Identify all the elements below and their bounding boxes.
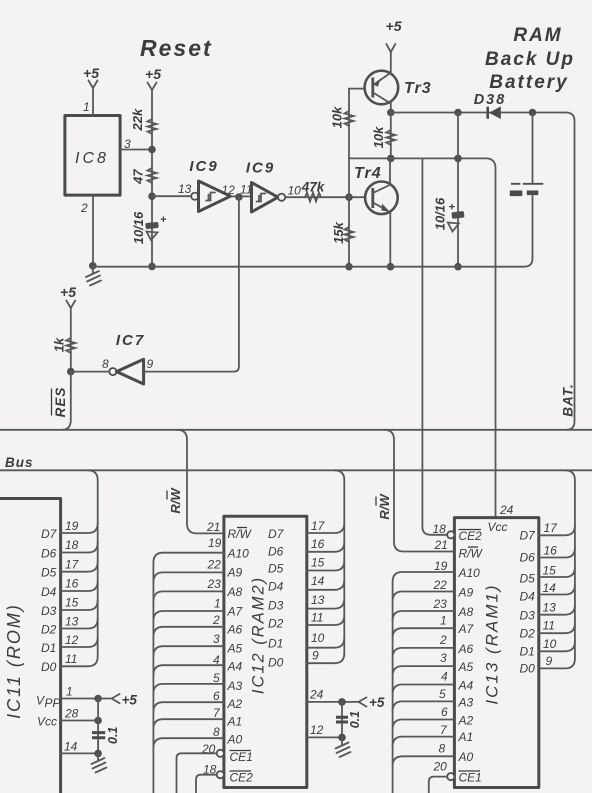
node pin3/22k junction: [148, 146, 156, 154]
wire IC12 pin19 A10: [153, 553, 224, 563]
svg-text:+5: +5: [369, 695, 385, 710]
inverter IC9b output bubble: [278, 194, 285, 201]
wire IC8 pin2 down to ground rail: [92, 195, 94, 266]
svg-text:12: 12: [65, 633, 79, 647]
svg-text:IC9: IC9: [189, 158, 218, 175]
svg-text:15: 15: [543, 564, 557, 578]
capacitor 10/16 (backup): [451, 211, 464, 219]
svg-text:28: 28: [64, 707, 79, 721]
node inverter input tap: [148, 192, 156, 200]
svg-text:IC8: IC8: [75, 150, 109, 167]
wire IC12 pin24: [307, 701, 359, 703]
wire IC11 pin12 D1: [61, 637, 98, 647]
svg-text:16: 16: [544, 544, 558, 558]
wire IC13 pin11 D2: [539, 623, 575, 633]
resistor 47k: [305, 193, 321, 202]
wire IC13 pin8 A0: [393, 756, 455, 766]
svg-text:CE2: CE2: [459, 529, 483, 543]
svg-text:47k: 47k: [301, 180, 326, 195]
wire IC12 pin7 A1: [153, 719, 224, 729]
svg-text:Tr4: Tr4: [354, 165, 382, 182]
svg-text:R/W: R/W: [459, 547, 484, 561]
svg-text:10: 10: [543, 637, 557, 651]
wire IC13 pin15 D5: [539, 567, 575, 577]
svg-text:IC7: IC7: [116, 332, 145, 349]
wire IC12 CE2: [196, 775, 217, 793]
capacitor 0.1 (IC12): [336, 717, 348, 722]
svg-text:17: 17: [65, 558, 80, 572]
wire node to IC7 output bubble: [71, 371, 110, 373]
capacitor 0.1 (IC11): [92, 733, 105, 738]
svg-text:R/W: R/W: [228, 527, 253, 541]
wire IC12 CE1: [177, 753, 217, 793]
svg-text:Bus: Bus: [5, 455, 34, 470]
svg-text:D4: D4: [268, 580, 284, 594]
svg-text:5: 5: [439, 687, 446, 701]
svg-text:13: 13: [178, 182, 192, 196]
svg-text:D38: D38: [474, 92, 507, 108]
svg-text:16: 16: [65, 577, 79, 591]
wire IC11 data bundle from bus: [88, 470, 98, 656]
svg-text:24: 24: [499, 503, 514, 517]
svg-text:18: 18: [433, 522, 447, 536]
svg-text:Battery: Battery: [489, 72, 568, 93]
svg-text:D0: D0: [41, 660, 57, 674]
svg-text:19: 19: [434, 559, 448, 573]
svg-text:6: 6: [441, 705, 448, 719]
wire IC13 pin9 D0: [539, 659, 575, 669]
svg-text:D0: D0: [520, 662, 536, 676]
wire IC11 pin11 D0: [61, 657, 98, 667]
svg-text:21: 21: [206, 520, 220, 534]
IC11 (ROM): [0, 499, 61, 793]
svg-text:0.1: 0.1: [106, 727, 120, 744]
wire RES down to bus: [62, 372, 71, 430]
node 47k/15k/Tr4 base junction: [345, 193, 353, 201]
inverter IC7 output bubble: [109, 368, 116, 375]
node rail/cap junction: [454, 155, 462, 163]
svg-text:1k: 1k: [52, 337, 67, 352]
svg-text:22k: 22k: [130, 108, 145, 131]
wire IC11 pin19 D7: [61, 523, 98, 533]
svg-text:+: +: [160, 214, 167, 226]
IC13 CE1 bubble: [447, 773, 454, 780]
resistor 15k: [345, 227, 354, 242]
op-amp triangle inverter IC9a: [199, 181, 231, 212]
wire IC12 address bundle vertical: [152, 563, 154, 793]
wire 10k collector link: [390, 113, 392, 159]
svg-text:1: 1: [214, 597, 221, 611]
svg-text:10/16: 10/16: [433, 197, 448, 230]
svg-text:14: 14: [64, 740, 78, 754]
svg-text:Vcc: Vcc: [37, 715, 57, 729]
wire 10/16 cap branch: [457, 113, 459, 267]
wire IC13 CE1: [429, 777, 447, 793]
wire bus line bottom: [0, 469, 592, 471]
wire IC12 pin12: [307, 736, 342, 738]
node Tr4 emitter/ground rail: [387, 263, 395, 271]
wire +5 to Tr3 emitter: [390, 52, 392, 72]
svg-text:+5: +5: [145, 66, 161, 82]
svg-text:BAT.: BAT.: [561, 383, 576, 417]
svg-text:D6: D6: [268, 545, 284, 559]
node D38/battery junction: [529, 109, 537, 117]
svg-text:3: 3: [213, 632, 220, 646]
node pin14/cap junction: [94, 750, 102, 758]
wire IC12 pin6 A2: [153, 702, 224, 712]
svg-text:A7: A7: [227, 605, 244, 619]
svg-text:R/W: R/W: [168, 487, 183, 514]
svg-text:15: 15: [311, 556, 325, 570]
wire IC13 pin4 A4: [393, 685, 455, 695]
wire IC8 pin1 to +5: [92, 88, 94, 116]
capacitor 10/16 (reset): [145, 222, 159, 229]
wire IC11 pin28 Vcc: [61, 720, 99, 722]
svg-text:4: 4: [441, 670, 448, 684]
wire IC13 pin1 A7: [393, 628, 455, 638]
wire R/W net to IC13 pin21: [384, 430, 454, 552]
wire IC11 pin18 D6: [61, 543, 98, 553]
svg-text:A10: A10: [458, 566, 481, 580]
ground (IC11): [97, 753, 99, 761]
svg-text:24: 24: [309, 688, 324, 702]
svg-text:D3: D3: [268, 599, 284, 613]
resistor 47: [148, 168, 157, 183]
svg-text:9: 9: [147, 357, 154, 371]
svg-text:13: 13: [543, 601, 557, 615]
wire inverter1 out to inverter2 in: [231, 195, 250, 197]
svg-text:+5: +5: [386, 18, 402, 34]
svg-text:+5: +5: [122, 693, 138, 708]
svg-text:A0: A0: [458, 750, 474, 764]
svg-text:IC13 (RAM1): IC13 (RAM1): [483, 583, 502, 704]
svg-text:PP: PP: [45, 696, 61, 710]
svg-text:+5: +5: [83, 65, 99, 81]
net label R/W (IC13): [376, 493, 392, 520]
svg-text:19: 19: [65, 519, 79, 533]
svg-text:22: 22: [433, 578, 448, 592]
wire IC12 pin9 D0: [307, 653, 345, 663]
wire IC13 pin23 A8: [393, 611, 455, 621]
resistor 1k: [66, 338, 75, 353]
svg-text:+: +: [449, 202, 456, 214]
svg-text:D2: D2: [520, 627, 536, 641]
svg-text:1: 1: [440, 614, 447, 628]
wire IC13 pin7 A1: [393, 737, 455, 747]
svg-text:8: 8: [439, 742, 446, 756]
svg-text:R/W: R/W: [377, 493, 392, 520]
svg-text:10k: 10k: [330, 106, 345, 128]
svg-text:16: 16: [311, 537, 325, 551]
wire Tr3 collector to rail: [390, 103, 392, 113]
svg-text:14: 14: [543, 581, 557, 595]
node Tr4 collector junction: [387, 155, 395, 163]
svg-text:D6: D6: [520, 551, 536, 565]
IC12 CE1 bubble: [217, 750, 224, 757]
wire IC12 cap vertical: [341, 702, 343, 738]
power +5 (IC12): [359, 697, 367, 706]
svg-text:D3: D3: [41, 604, 57, 618]
svg-text:A10: A10: [227, 547, 250, 561]
svg-text:22: 22: [207, 558, 222, 572]
IC12 CE2 bubble: [217, 771, 224, 778]
svg-text:10: 10: [311, 631, 325, 645]
ground (IC8 pin2): [89, 262, 97, 270]
svg-text:Back Up: Back Up: [485, 49, 575, 70]
node IC12 pin12/cap junction: [338, 734, 346, 742]
svg-text:15k: 15k: [331, 221, 346, 243]
svg-text:D1: D1: [41, 641, 56, 655]
node 15k bottom: [345, 263, 353, 271]
svg-text:A4: A4: [227, 660, 243, 674]
svg-text:D7: D7: [268, 527, 285, 541]
wire IC12 pin10 D1: [307, 638, 345, 648]
wire IC12 pin23 A8: [153, 591, 224, 601]
svg-text:RAM: RAM: [513, 25, 562, 46]
transistor Tr3: [365, 71, 399, 105]
wire IC13 pin6 A2: [393, 720, 455, 730]
node RES junction: [67, 368, 75, 376]
IC8: [65, 116, 120, 196]
wire tap to inverter1 input: [152, 195, 191, 197]
svg-text:D6: D6: [41, 547, 57, 561]
svg-text:1: 1: [66, 685, 73, 699]
svg-text:A5: A5: [227, 642, 243, 656]
node 10/16 cap top: [454, 109, 462, 117]
svg-text:10/16: 10/16: [131, 211, 146, 244]
resistor 22k: [148, 119, 157, 134]
wire reset RC vertical: [151, 90, 153, 266]
battery B1: [532, 113, 534, 184]
net label RES: [52, 387, 69, 418]
wire rail y112 (Tr3 collector to D38/battery): [391, 113, 575, 430]
resistor 10k (Tr3 base): [345, 111, 354, 126]
net label R/W (IC12): [167, 487, 183, 514]
wire IC11 pin1 Vpp: [61, 698, 99, 700]
svg-text:D5: D5: [520, 572, 536, 586]
svg-text:11: 11: [543, 619, 555, 633]
wire IC11 pin15 D3: [61, 600, 98, 610]
svg-text:D1: D1: [268, 637, 283, 651]
svg-text:13: 13: [65, 615, 79, 629]
wire Vpp-Vcc-cap vertical: [97, 699, 99, 754]
wire R/W net to IC12 pin21: [177, 430, 224, 534]
svg-text:A6: A6: [458, 642, 474, 656]
wire IC13 pin14 D4: [539, 585, 575, 595]
wire IC11 pin13 D2: [61, 619, 98, 629]
svg-text:+5: +5: [60, 284, 76, 300]
wire IC12 pin8 A0: [153, 738, 224, 748]
wire IC13 pin3 A5: [393, 666, 455, 676]
svg-text:A9: A9: [458, 586, 474, 600]
svg-text:17: 17: [311, 519, 326, 533]
svg-text:Reset: Reset: [140, 35, 213, 61]
svg-text:17: 17: [544, 521, 559, 535]
ground (IC12): [341, 737, 343, 745]
inverter U1a input bubble: [191, 193, 198, 200]
svg-text:CE1: CE1: [230, 750, 253, 764]
wire bus line top: [0, 429, 592, 431]
svg-text:23: 23: [207, 577, 222, 591]
svg-text:IC11 (ROM): IC11 (ROM): [4, 603, 24, 719]
wire IC12 pin13 D3: [307, 599, 345, 609]
svg-text:6: 6: [213, 689, 220, 703]
wire IC12 pin17 D7: [307, 523, 345, 533]
svg-text:D7: D7: [41, 527, 58, 541]
svg-text:2: 2: [212, 613, 220, 627]
svg-text:RES: RES: [53, 387, 68, 418]
svg-text:3: 3: [440, 651, 447, 665]
node IC12 Vcc junction: [338, 698, 346, 706]
svg-text:18: 18: [65, 538, 79, 552]
svg-text:21: 21: [434, 538, 448, 552]
svg-text:A2: A2: [227, 697, 243, 711]
wire IC7 input from 12/11 node: [144, 197, 239, 372]
svg-text:9: 9: [312, 649, 319, 663]
wire inverter2 out to Tr4 base: [285, 196, 365, 198]
wire IC12 pin11 D2: [307, 615, 345, 625]
op-amp triangle inverter IC9b: [252, 183, 279, 213]
wire IC11 pin14: [61, 752, 99, 754]
IC13 (RAM1): [454, 518, 538, 788]
IC12 (RAM2): [224, 516, 307, 787]
wire base-resistor vertical (10k/15k chain): [348, 89, 350, 267]
node Vpp junction: [94, 695, 102, 703]
wire IC13 pin22 A9: [393, 592, 455, 602]
svg-text:A9: A9: [227, 566, 243, 580]
svg-text:A1: A1: [227, 715, 243, 729]
wire IC12 pin15 D5: [307, 561, 345, 571]
svg-text:23: 23: [433, 597, 448, 611]
svg-text:A3: A3: [227, 679, 243, 693]
svg-text:CE1: CE1: [459, 771, 482, 785]
svg-text:20: 20: [433, 760, 448, 774]
svg-text:10k: 10k: [371, 126, 386, 148]
svg-text:D5: D5: [268, 562, 284, 576]
svg-text:47: 47: [130, 169, 145, 185]
node cap to ground rail: [148, 263, 156, 271]
svg-text:1: 1: [83, 100, 90, 114]
wire IC12 pin2 A6: [153, 627, 224, 637]
svg-text:8: 8: [102, 357, 109, 371]
wire IC12 pin14 D4: [307, 580, 345, 590]
svg-text:A1: A1: [458, 730, 474, 744]
svg-text:11: 11: [311, 611, 323, 625]
wire IC12 pin1 A7: [153, 611, 224, 621]
svg-text:10: 10: [288, 184, 302, 198]
node Tr3 collector: [387, 109, 395, 117]
wire IC13 data bundle from bus: [565, 470, 575, 658]
wire IC13 pin19 A10: [393, 572, 455, 582]
svg-text:A8: A8: [227, 585, 243, 599]
wire Tr4 collector: [389, 158, 391, 182]
wire IC13 pin17 D7: [539, 526, 575, 536]
svg-text:D7: D7: [520, 529, 537, 543]
svg-text:D0: D0: [268, 656, 284, 670]
svg-text:IC12 (RAM2): IC12 (RAM2): [250, 576, 268, 694]
wire Tr3 base: [349, 88, 365, 90]
svg-text:D1: D1: [520, 645, 535, 659]
wire Tr4 emitter to ground rail: [389, 213, 391, 267]
wire IC12 pin22 A9: [153, 572, 224, 582]
wire IC12 pin4 A4: [153, 665, 224, 675]
resistor 10k (collector): [386, 130, 395, 145]
IC13 CE2 bubble: [447, 531, 454, 538]
svg-text:15: 15: [65, 596, 79, 610]
svg-text:Tr3: Tr3: [404, 80, 432, 97]
node 12/11 junction: [235, 193, 243, 201]
svg-text:D2: D2: [268, 617, 284, 631]
svg-text:A5: A5: [458, 660, 474, 674]
wire ground rail y266: [93, 258, 533, 266]
svg-text:4: 4: [213, 653, 220, 667]
wire IC13 pin2 A6: [393, 648, 455, 658]
wire IC13 pin13 D3: [539, 605, 575, 615]
node Vcc junction: [94, 717, 102, 725]
wire IC12 pin3 A5: [153, 646, 224, 656]
svg-text:19: 19: [208, 536, 222, 550]
wire CE2 net vertical (from y158 rail): [422, 158, 447, 534]
power +5 (Vpp): [98, 694, 120, 703]
svg-text:0.1: 0.1: [348, 711, 362, 728]
svg-text:D4: D4: [520, 590, 536, 604]
svg-text:8: 8: [213, 725, 220, 739]
svg-text:5: 5: [213, 671, 220, 685]
wire IC8 pin3 to RC node: [120, 149, 152, 151]
svg-text:2: 2: [80, 201, 88, 215]
wire IC12 data bundle from bus: [335, 470, 345, 653]
wire IC13 address bundle vertical: [392, 582, 394, 793]
svg-text:D4: D4: [41, 585, 57, 599]
svg-text:D2: D2: [41, 623, 57, 637]
svg-text:14: 14: [311, 574, 325, 588]
svg-text:A7: A7: [458, 622, 475, 636]
svg-text:A2: A2: [458, 714, 474, 728]
svg-text:11: 11: [65, 652, 77, 666]
svg-text:D5: D5: [41, 566, 57, 580]
svg-text:A4: A4: [458, 679, 474, 693]
wire IC12 pin5 A3: [153, 684, 224, 694]
svg-text:9: 9: [546, 654, 553, 668]
wire IC12 pin16 D6: [307, 542, 345, 552]
wire IC13 pin16 D6: [539, 548, 575, 558]
svg-text:A6: A6: [227, 623, 243, 637]
svg-text:CE2: CE2: [230, 771, 254, 785]
wire rail y158 (Tr4 collector to Vcc feed): [349, 158, 496, 517]
svg-text:IC9: IC9: [246, 160, 275, 177]
svg-text:Vcc: Vcc: [488, 520, 508, 534]
svg-text:A0: A0: [227, 733, 243, 747]
svg-text:12: 12: [222, 183, 236, 197]
op-amp triangle inverter IC7: [117, 359, 144, 384]
node cap bottom: [454, 263, 462, 271]
wire IC13 pin10 D1: [539, 642, 575, 652]
svg-text:D3: D3: [520, 609, 536, 623]
wire IC11 pin16 D4: [61, 581, 98, 591]
wire IC13 pin5 A3: [393, 701, 455, 711]
svg-text:13: 13: [311, 593, 325, 607]
svg-text:A3: A3: [458, 696, 474, 710]
svg-text:A8: A8: [458, 605, 474, 619]
wire IC11 pin17 D5: [61, 562, 98, 572]
svg-text:2: 2: [439, 633, 447, 647]
svg-text:12: 12: [310, 723, 324, 737]
